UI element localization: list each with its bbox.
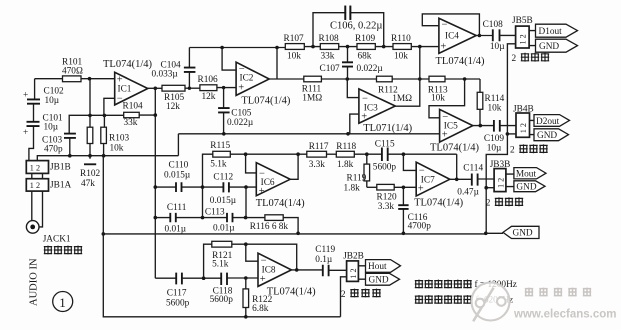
wire IC5 out to C109 — [473, 125, 494, 127]
svg-text:10µ: 10µ — [490, 42, 505, 52]
node C117/C118/R121 — [202, 276, 206, 280]
wire R108 to R109 — [339, 46, 357, 48]
svg-text:33k: 33k — [321, 51, 335, 61]
wire JB3B gnd stub — [486, 187, 494, 189]
node R103 top / IC1 minus — [103, 114, 107, 118]
op-amp IC7 — [414, 162, 463, 208]
svg-text:10k: 10k — [110, 144, 124, 154]
node IC4 out — [478, 34, 482, 38]
svg-text:C119: C119 — [315, 245, 335, 255]
node IC4 plus riser / IC3 out — [418, 77, 422, 81]
svg-text:D2out: D2out — [536, 117, 560, 127]
svg-text:JB2B: JB2B — [343, 252, 364, 262]
wire IC3 out up to R112/R113 node — [395, 47, 420, 107]
svg-text:R109: R109 — [355, 34, 375, 44]
wire C102 to C101 — [33, 104, 35, 121]
svg-text:0.01µ: 0.01µ — [213, 224, 235, 234]
tag D2out — [534, 115, 570, 127]
node IC3 plus / busB — [346, 132, 350, 136]
svg-text:+: + — [238, 82, 244, 93]
node R115 riser / C113 row — [201, 216, 205, 220]
wire C102 riser from R101 input — [34, 79, 36, 99]
wire R104 right to IC1 output vertical — [139, 114, 155, 116]
resistor R119 — [344, 154, 370, 193]
node IC5 out / R114 — [479, 124, 483, 128]
svg-text:0.022µ: 0.022µ — [357, 64, 384, 74]
svg-text:12k: 12k — [166, 102, 180, 112]
svg-text:+: + — [260, 274, 266, 285]
wire R105 to R106 — [185, 87, 200, 89]
svg-text:10k: 10k — [431, 93, 445, 103]
svg-text:3.3k: 3.3k — [309, 160, 326, 170]
wire R106 to IC2 + input — [217, 87, 236, 89]
capacitor C110 — [164, 161, 191, 192]
wire C114 to JB3B — [478, 178, 495, 180]
wire JB4B gnd stub — [507, 133, 516, 135]
wire JB5B gnd stub and chain down — [507, 44, 515, 134]
wire C117 to C118 — [182, 277, 221, 279]
svg-text:0.1µ: 0.1µ — [315, 255, 333, 265]
resistor R106 — [198, 75, 218, 102]
svg-text:2: 2 — [512, 54, 517, 64]
label JB2B socket — [341, 289, 381, 300]
capacitor C108 — [483, 20, 506, 52]
svg-text:1.8k: 1.8k — [337, 160, 354, 170]
svg-text:JACK1: JACK1 — [43, 235, 71, 245]
svg-text:10k: 10k — [488, 103, 502, 113]
svg-text:D1out: D1out — [539, 27, 563, 37]
svg-text:+: + — [418, 184, 424, 195]
resistor R101 — [62, 58, 83, 82]
node C111 left — [154, 216, 158, 220]
node R122 top — [244, 276, 248, 280]
wire IC8 out to C119 — [291, 269, 322, 271]
svg-text:+: + — [442, 129, 448, 140]
node C106 left — [311, 45, 315, 49]
svg-text:AUDIO IN: AUDIO IN — [29, 258, 40, 306]
resistor R120 — [377, 184, 397, 211]
svg-text:R104: R104 — [123, 101, 143, 111]
wire JB1A to jack — [32, 191, 43, 227]
svg-text:C115: C115 — [375, 139, 395, 149]
svg-text:1 2: 1 2 — [519, 34, 528, 44]
svg-text:IC4: IC4 — [445, 31, 459, 41]
svg-text:5600p: 5600p — [210, 295, 234, 305]
svg-text:TL074(1/4): TL074(1/4) — [430, 142, 479, 153]
wire IC2 out riser — [276, 48, 278, 80]
resistor R110 — [391, 34, 411, 62]
wire R115 left riser — [203, 154, 213, 217]
svg-text:R103: R103 — [109, 134, 129, 144]
op-amp IC6 — [256, 163, 305, 209]
tag Hout — [366, 260, 401, 273]
wire C118 to IC8 plus — [227, 277, 258, 279]
wire IC3 minus input — [347, 79, 359, 98]
svg-text:0.47µ: 0.47µ — [457, 188, 479, 198]
svg-text:www.elecfans.com: www.elecfans.com — [513, 309, 616, 321]
svg-text:GND: GND — [369, 276, 389, 286]
watermark logo — [472, 283, 510, 322]
svg-text:TL074(1/4): TL074(1/4) — [256, 198, 305, 209]
capacitor C106 with loop — [313, 6, 384, 47]
node C105/busB — [222, 132, 226, 136]
label lotus socket — [44, 246, 82, 255]
svg-text:JB4B: JB4B — [513, 105, 534, 115]
op-amp IC3 — [359, 89, 413, 134]
svg-text:R108: R108 — [319, 34, 339, 44]
wire R101 to IC1 + input — [81, 78, 115, 80]
node C113 right — [244, 216, 248, 220]
tag GND main — [503, 226, 539, 238]
svg-text:0.033µ: 0.033µ — [152, 70, 179, 80]
capacitor C109 — [484, 120, 504, 154]
resistor R102 — [80, 79, 100, 189]
wire IC2 minus feedback drop — [222, 48, 236, 71]
wire C110 row — [155, 186, 202, 188]
svg-text:TL071(1/4): TL071(1/4) — [363, 123, 412, 134]
connector JB5B — [512, 16, 533, 48]
svg-text:1 2: 1 2 — [30, 181, 40, 190]
wire IC1 minus input — [104, 98, 115, 115]
svg-text:+: + — [440, 41, 446, 52]
wire C104 top / IC2 out to R107 — [189, 47, 285, 49]
capacitor C104 — [152, 48, 196, 89]
node R119 top — [365, 152, 369, 156]
wire ground bus A bend up to bus B level — [177, 134, 179, 156]
label JB5B socket — [512, 53, 550, 64]
node C116 gnd — [402, 232, 406, 236]
svg-text:0.022µ: 0.022µ — [227, 118, 254, 128]
wire IC2 out to R111 — [269, 78, 304, 80]
svg-text:10µ: 10µ — [44, 123, 59, 133]
wire IC6 out riser to feedback line — [290, 154, 298, 179]
label crossover frequencies line 1 — [415, 279, 517, 290]
svg-text:R106: R106 — [198, 75, 218, 85]
op-amp IC2 — [236, 62, 291, 106]
node C103/busA — [68, 154, 72, 158]
wire gnd line to tag — [486, 232, 503, 234]
svg-text:0.015µ: 0.015µ — [164, 171, 191, 181]
wire R119 to R120 — [367, 186, 377, 188]
svg-text:C107: C107 — [320, 64, 340, 74]
resistor R122 — [243, 278, 273, 317]
svg-text:+: + — [361, 112, 367, 123]
wire IC8 minus drop — [246, 244, 258, 261]
wire gnd chain JB4B down to JB3B — [486, 134, 507, 233]
wire C112 row — [203, 186, 257, 188]
svg-text:R107: R107 — [284, 34, 304, 44]
svg-text:4700p: 4700p — [408, 221, 432, 231]
svg-text:5600p: 5600p — [373, 163, 397, 173]
wire C117 feed — [155, 277, 176, 279]
op-amp IC8 — [258, 253, 316, 297]
node gnd chain JB4B — [506, 132, 510, 136]
connector JB3B — [490, 160, 511, 192]
circled numeral 1 — [53, 292, 73, 312]
wire R107 to R108 — [304, 46, 320, 48]
node R103/busA — [102, 154, 106, 158]
node IC1 out — [154, 87, 158, 91]
wire R120 to IC7 plus — [394, 186, 416, 188]
label crossover frequencies line 2 — [415, 295, 513, 306]
wire C119 to JB2B — [329, 269, 347, 271]
svg-text:TL074(1/4): TL074(1/4) — [436, 56, 485, 67]
svg-text:47k: 47k — [81, 179, 95, 189]
svg-text:C108: C108 — [483, 20, 503, 30]
wire C115 to IC7 feedback node — [388, 153, 457, 155]
op-amp IC1 — [103, 59, 152, 105]
label JB3B socket — [486, 197, 524, 208]
wire IC1 out to R105 — [148, 87, 162, 89]
svg-text:JB5B: JB5B — [512, 16, 533, 26]
node C110/C112/R115 riser — [201, 185, 205, 189]
tag Mout — [514, 168, 546, 180]
capacitor C119 — [315, 245, 335, 276]
svg-text:1MΩ: 1MΩ — [302, 93, 322, 103]
capacitor C117 — [166, 273, 190, 309]
node gnd line right — [484, 232, 488, 236]
jack JACK1 — [26, 221, 71, 245]
wire R112 to R113 — [392, 78, 429, 80]
svg-text:GND: GND — [537, 131, 557, 141]
resistor R114 — [477, 79, 504, 126]
svg-text:470Ω: 470Ω — [62, 67, 83, 77]
op-amp IC5 — [430, 109, 479, 153]
wire input to R101 — [35, 78, 63, 80]
wire IC4 feedback loop — [422, 14, 479, 36]
wire R103 bottom down to gnd line and bottom rail — [103, 156, 340, 317]
svg-text:C112: C112 — [213, 173, 233, 183]
svg-text:10µ: 10µ — [45, 96, 60, 106]
svg-text:+: + — [23, 128, 28, 138]
wire JB5B to tags — [529, 31, 535, 46]
wire JB1B to JB1A pins — [32, 173, 43, 178]
svg-text:C117: C117 — [167, 289, 187, 299]
svg-text:C114: C114 — [463, 164, 483, 174]
wire JB2B gnd stub down to rail — [341, 277, 347, 317]
capacitor C118 — [210, 273, 234, 306]
svg-text:R117: R117 — [309, 142, 329, 152]
svg-text:C111: C111 — [167, 203, 187, 213]
resistor R111 — [302, 76, 323, 103]
resistor R118 — [336, 142, 356, 170]
node R102/busA — [88, 154, 92, 158]
svg-text:−: − — [442, 20, 448, 31]
node R116 to gnd line — [296, 232, 300, 236]
svg-text:+: + — [23, 91, 28, 101]
node IC6 out riser — [296, 152, 300, 156]
wire R117 to R118 — [327, 153, 337, 155]
node IC8 out — [295, 268, 299, 272]
node IC7 out — [455, 178, 459, 182]
watermark text — [513, 288, 616, 321]
node R101/IC1+ — [88, 77, 92, 81]
svg-text:5.1k: 5.1k — [212, 260, 229, 270]
capacitor C113 — [205, 207, 235, 233]
svg-text:TL074(1/4): TL074(1/4) — [103, 59, 152, 70]
svg-text:C110: C110 — [169, 161, 189, 171]
resistor R117 — [307, 142, 329, 170]
op-amp IC4 — [436, 18, 485, 67]
wire IC3 plus input to busB — [350, 114, 359, 134]
node R113/IC5 feedback — [463, 77, 467, 81]
resistor R113 — [428, 76, 448, 103]
wire IC7 out to C114 — [450, 178, 472, 180]
capacitor C115 — [373, 139, 397, 172]
svg-text:1.8k: 1.8k — [344, 184, 361, 194]
svg-text:33k: 33k — [124, 118, 138, 128]
wire IC7 feedback drop — [456, 154, 458, 179]
svg-text:1 2: 1 2 — [519, 123, 528, 133]
wire R110 to IC4 + input — [411, 46, 439, 48]
node C106 right — [382, 45, 386, 49]
node C105 riser — [222, 86, 225, 89]
svg-text:R116 6 8k: R116 6 8k — [250, 222, 289, 232]
wire C103 to busA — [69, 139, 71, 156]
node C104 riser — [188, 87, 191, 90]
wire R121 riser — [204, 244, 212, 278]
svg-text:12k: 12k — [202, 92, 216, 102]
svg-text:R110: R110 — [391, 34, 411, 44]
node IC2 minus feedback — [220, 46, 224, 50]
label JB4B socket — [510, 144, 548, 155]
wire gnd line bottom — [103, 233, 486, 235]
node C112 right / IC6 plus — [244, 185, 248, 189]
resistor R105 — [162, 85, 185, 112]
tag GND of JB3B — [514, 181, 545, 193]
svg-text:Hout: Hout — [368, 262, 387, 272]
svg-text:1 2: 1 2 — [349, 268, 358, 278]
wire ground bus A (JB1B pin2 up and right to bend) — [37, 156, 178, 161]
wire IC6 minus drop — [246, 154, 257, 173]
capacitor C101 — [23, 114, 63, 139]
svg-text:JB1A: JB1A — [50, 180, 71, 190]
wire C101 down to JB1B pin 1 — [29, 127, 34, 161]
svg-text:1MΩ: 1MΩ — [392, 94, 412, 104]
svg-text:6.8k: 6.8k — [252, 304, 269, 314]
svg-text:5600p: 5600p — [166, 299, 190, 309]
tag GND of JB5B — [536, 39, 578, 52]
svg-text:C113: C113 — [205, 207, 225, 217]
svg-text:R115: R115 — [210, 141, 230, 151]
wire R118 to C115 — [354, 153, 382, 155]
svg-text:GND: GND — [513, 229, 533, 239]
node C110 left — [154, 185, 158, 189]
connector JB4B — [513, 105, 534, 138]
svg-text:TL074(1/4): TL074(1/4) — [241, 95, 290, 106]
node R104/IC1out — [154, 113, 158, 117]
resistor R108 — [319, 34, 339, 62]
svg-text:JB1B: JB1B — [50, 162, 71, 172]
capacitor C111 — [165, 203, 187, 235]
wire JB3B to tags — [506, 174, 514, 187]
capacitor C114 — [457, 164, 483, 198]
svg-text:TL074(1/4): TL074(1/4) — [267, 287, 316, 298]
wire R109 to R110 — [375, 46, 393, 48]
tag D1out — [536, 24, 578, 37]
tag GND of JB2B — [366, 273, 400, 285]
svg-text:2: 2 — [510, 146, 515, 156]
wire C112/C113 link riser — [245, 187, 247, 218]
wire ground bus B to IC5 + input — [178, 133, 439, 135]
svg-text:2: 2 — [486, 199, 491, 209]
svg-text:R118: R118 — [336, 142, 356, 152]
capacitor C103 — [42, 134, 76, 155]
node IC8 minus riser — [244, 242, 248, 246]
svg-text:C106, 0.22µ: C106, 0.22µ — [330, 21, 382, 32]
wire C111 row — [155, 217, 245, 219]
svg-text:1 2: 1 2 — [497, 178, 506, 188]
wire R113 to R114 top — [445, 78, 480, 80]
wire IC1 output down distribution — [154, 88, 156, 278]
wire JB2B to tags — [358, 266, 365, 279]
node IC3 minus riser — [346, 77, 350, 81]
wire C109 to JB4B — [500, 125, 516, 127]
resistor R109 — [355, 34, 375, 62]
svg-text:3.3k: 3.3k — [378, 202, 395, 212]
capacitor C102 — [23, 87, 64, 106]
svg-text:C109: C109 — [484, 134, 504, 144]
connector JB1A — [26, 179, 71, 191]
capacitor C116 — [398, 187, 431, 233]
svg-text:JB3B: JB3B — [490, 160, 511, 170]
node R102 top — [88, 114, 92, 118]
svg-text:R114: R114 — [485, 94, 505, 104]
svg-text:0.01µ: 0.01µ — [165, 225, 187, 235]
svg-text:C105: C105 — [231, 108, 251, 118]
resistor R104 — [123, 101, 143, 128]
resistor row: R107 — [284, 34, 305, 62]
wire node line at y115 (C103 to R104) — [69, 115, 124, 133]
node IC4 plus — [418, 45, 422, 49]
resistor R115 — [210, 141, 230, 169]
connector JB1B — [26, 161, 70, 174]
svg-text:470p: 470p — [44, 145, 63, 155]
svg-text:R102: R102 — [80, 169, 100, 179]
wire JB4B to tags — [530, 120, 535, 134]
connector JB2B — [343, 252, 364, 282]
capacitor C107 — [320, 47, 384, 79]
svg-text:5.1k: 5.1k — [210, 160, 227, 170]
wire IC5 minus feedback — [429, 79, 465, 118]
svg-text:TL074(1/4): TL074(1/4) — [414, 197, 463, 208]
node gnd line left — [102, 232, 106, 236]
node IC6 minus riser — [244, 152, 248, 156]
ground bar below R102 — [84, 163, 96, 165]
svg-text:R119: R119 — [347, 173, 367, 183]
node C107 riser — [346, 45, 350, 49]
svg-text:10k: 10k — [394, 51, 408, 61]
svg-text:68k: 68k — [358, 51, 372, 61]
node gnd chain JB3B — [484, 186, 488, 190]
svg-text:+: + — [259, 186, 265, 197]
svg-text:Mout: Mout — [516, 170, 537, 180]
svg-text:2: 2 — [341, 290, 346, 300]
wire C108 to JB5B — [500, 34, 516, 36]
resistor R103 — [101, 115, 130, 155]
capacitor C105 — [218, 88, 254, 134]
wire IC4 out to C108 — [476, 35, 493, 37]
svg-text:1 2: 1 2 — [30, 163, 40, 172]
svg-text:1: 1 — [59, 295, 65, 310]
wire R115 to R117 — [230, 153, 306, 155]
svg-text:0.015µ: 0.015µ — [210, 196, 237, 206]
node IC2 out top — [275, 46, 279, 50]
resistor R121 — [212, 241, 233, 269]
svg-text:10µ: 10µ — [487, 144, 502, 154]
tag GND of JB4B — [534, 129, 569, 141]
resistor R112 — [377, 76, 413, 104]
